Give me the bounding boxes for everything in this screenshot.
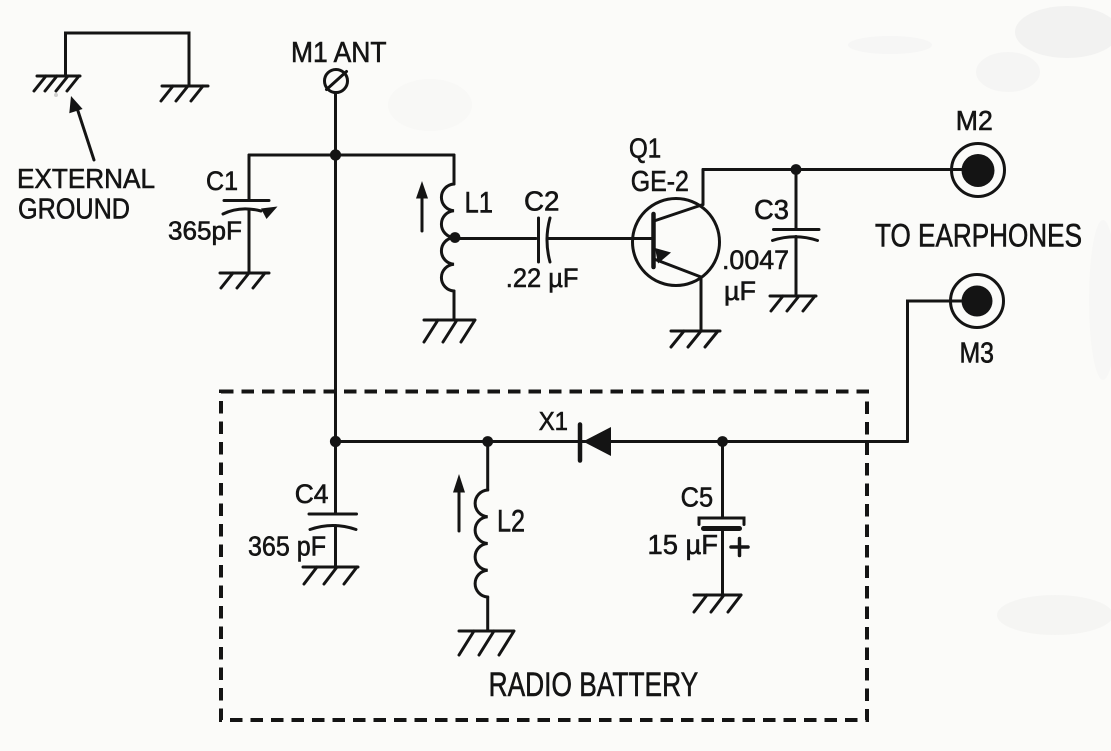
wire main vertical bus [334, 155, 337, 442]
svg-text:RADIO BATTERY: RADIO BATTERY [489, 666, 699, 704]
diode X1 [580, 425, 611, 461]
wire Q1 emitter down [700, 277, 703, 331]
arrow (L1 tuning) [416, 181, 428, 231]
wire top horizontal [249, 154, 454, 157]
svg-text:M1 ANT: M1 ANT [291, 37, 387, 69]
svg-text:C4: C4 [295, 479, 329, 509]
ground (external, left) [34, 76, 80, 91]
svg-text:C2: C2 [524, 186, 560, 217]
transistor Q1 [633, 199, 720, 286]
inductor L1 [441, 155, 454, 320]
wire Q1 collector up [702, 170, 705, 205]
node C3 top [791, 164, 802, 175]
ground (C3) [770, 296, 816, 311]
svg-text:X1: X1 [539, 406, 568, 436]
node C5 top [717, 436, 728, 447]
svg-text:L2: L2 [497, 503, 525, 539]
jack M3 [951, 275, 1004, 328]
svg-text:.22 µF: .22 µF [506, 263, 579, 293]
capacitor C1 (variable) [223, 155, 278, 273]
svg-text:µF: µF [724, 276, 756, 306]
svg-text:M2: M2 [956, 105, 993, 136]
ground (L1) [424, 320, 475, 342]
wire M3 branch [908, 301, 964, 442]
arrow to external ground [69, 96, 94, 160]
wire collector horizontal to M2 [703, 168, 965, 171]
ground (C4) [303, 567, 358, 584]
capacitor C5 (electrolytic) [699, 442, 744, 596]
svg-text:M3: M3 [960, 338, 995, 370]
svg-text:GROUND: GROUND [18, 194, 130, 226]
svg-text:TO EARPHONES: TO EARPHONES [875, 218, 1082, 254]
wire L1 to C2 [455, 237, 536, 240]
dashed box RADIO BATTERY [221, 392, 867, 721]
wire C2 to Q1 base [547, 237, 653, 240]
svg-text:C5: C5 [681, 482, 714, 513]
svg-text:C3: C3 [754, 194, 789, 225]
wire external ground bracket [66, 33, 190, 86]
svg-text:365pF: 365pF [168, 216, 242, 246]
svg-text:Q1: Q1 [629, 133, 661, 164]
ground (external, right) [161, 86, 208, 101]
inductor L2 [475, 442, 488, 632]
svg-text:15 µF: 15 µF [648, 529, 719, 560]
arrow (L2 tuning) [453, 474, 465, 531]
terminal M1 ANT [325, 70, 348, 93]
svg-text:C1: C1 [206, 166, 238, 196]
jack M2 [952, 144, 1005, 197]
node C4 top [330, 436, 341, 447]
capacitor C4 [309, 442, 357, 568]
ground (Q1) [671, 331, 720, 347]
capacitor C3 [773, 170, 820, 297]
svg-text:L1: L1 [465, 187, 494, 220]
ground (C5) [694, 595, 741, 612]
svg-text:GE-2: GE-2 [631, 166, 689, 198]
svg-text:365 pF: 365 pF [248, 531, 326, 562]
scan smudges [54, 6, 1111, 635]
node L1 tap [450, 232, 461, 243]
ground (C1) [220, 273, 269, 288]
wire antenna vertical [334, 93, 337, 156]
node main junction [330, 149, 341, 160]
svg-text:EXTERNAL: EXTERNAL [17, 163, 155, 194]
ground (L2) [459, 631, 514, 655]
svg-text:.0047: .0047 [722, 245, 789, 275]
node L2 top [482, 436, 493, 447]
capacitor C2 [539, 218, 551, 262]
wire X1 bus horizontal [336, 440, 908, 443]
plus sign (C5 polarity) [731, 539, 748, 556]
